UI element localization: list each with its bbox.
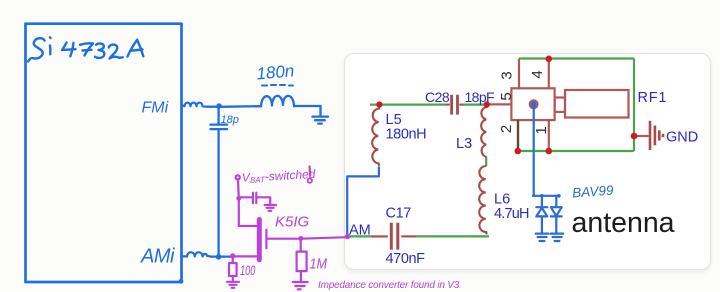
pin 3 lead xyxy=(518,59,520,89)
capacitor decoupling lead xyxy=(239,196,252,198)
wire L3 to L6 segment xyxy=(485,157,487,166)
svg-text:2: 2 xyxy=(498,125,515,133)
wire AM node to converter xyxy=(211,255,233,257)
junction pin1/bottom shield xyxy=(546,148,553,155)
wire 18p down to AM node xyxy=(217,130,219,257)
junction L3/top net xyxy=(484,101,490,107)
junction gate/1M node xyxy=(298,236,303,241)
svg-text:C28: C28 xyxy=(425,89,450,105)
RF1 neck xyxy=(555,98,565,112)
svg-text:180n: 180n xyxy=(256,61,295,83)
RF1 body xyxy=(565,90,629,118)
transistor Q1 gate bar xyxy=(265,230,267,248)
GND lead xyxy=(634,135,649,137)
junction L5/top net xyxy=(376,101,382,107)
svg-text:4: 4 xyxy=(529,70,546,78)
svg-text:3: 3 xyxy=(499,71,516,79)
wire coil to ground xyxy=(294,105,321,107)
pin 4 lead xyxy=(548,59,550,89)
ground (1M) xyxy=(293,282,308,289)
svg-text:GND: GND xyxy=(666,129,698,145)
svg-text:VBAT-switched: VBAT-switched xyxy=(241,167,316,185)
svg-text:K5IG: K5IG xyxy=(275,214,310,231)
wire AM node up to L5 bottom xyxy=(347,167,379,236)
ground (FM side) xyxy=(312,106,328,124)
resistor R 100 lead xyxy=(232,256,234,263)
svg-text:AM: AM xyxy=(349,223,371,239)
ground (D1) xyxy=(536,234,549,241)
wire top net L5 to C28 xyxy=(370,103,446,105)
wire antenna feed from pin5 xyxy=(533,107,535,196)
capacitor 18p lead xyxy=(217,106,219,124)
RF1 main box xyxy=(511,88,554,120)
wire FM node xyxy=(212,105,261,108)
diode D1 lead to ground xyxy=(541,216,543,233)
inductor L6 xyxy=(479,166,487,234)
svg-text:5: 5 xyxy=(498,92,515,100)
svg-text:Impedance converter found in V: Impedance converter found in V3 xyxy=(318,280,460,291)
connector RF1 xyxy=(487,59,649,152)
svg-text:18pF: 18pF xyxy=(465,89,495,105)
junction antenna/pin5 (blue dot) xyxy=(531,101,537,107)
resistor R 1M lead xyxy=(300,239,302,252)
pin 2 lead (dark) xyxy=(517,120,519,150)
pin 5 lead xyxy=(487,103,512,105)
capacitor 18p plates xyxy=(211,125,228,130)
wire RF1 shield bottom xyxy=(518,150,634,152)
transistor Q1 channel bar xyxy=(257,220,262,260)
green wires xyxy=(348,59,634,237)
svg-text:18p: 18p xyxy=(221,114,239,126)
resistor R 1M lead to ground xyxy=(300,271,302,281)
ferrite bead FM (squiggle) xyxy=(185,103,213,107)
svg-text:BAV99: BAV99 xyxy=(572,183,615,201)
schematic card background xyxy=(344,53,711,270)
wire AM to C17 xyxy=(348,235,372,237)
diode D2 cathode bar xyxy=(551,215,562,217)
IC U1 Si4732A box xyxy=(26,24,182,282)
diode D2 lead xyxy=(555,196,557,207)
resistor R 100 lead to ground xyxy=(232,276,234,281)
inductor L 180n (coil) xyxy=(261,96,294,106)
wire VBAT lead xyxy=(237,180,240,199)
exclamation mark xyxy=(308,167,311,176)
wire diode top rail xyxy=(533,195,559,197)
junction D2 top xyxy=(557,194,561,198)
ground (100 ohm) xyxy=(227,282,239,288)
diode D1 cathode bar xyxy=(536,206,547,208)
transistor Q1 drain lead xyxy=(239,199,257,226)
junction AM node (magenta dot) xyxy=(345,234,350,239)
junction pin2/bottom shield xyxy=(515,148,522,155)
ferrite bead AM (squiggle) xyxy=(187,252,211,256)
wire RF1 shield right xyxy=(633,59,635,152)
svg-text:RF1: RF1 xyxy=(638,90,668,106)
svg-text:1: 1 xyxy=(533,126,550,134)
svg-text:AMi: AMi xyxy=(140,246,175,268)
capacitor C17 xyxy=(372,223,417,250)
terminal circle VBAT xyxy=(236,175,240,179)
ground (D2) xyxy=(551,234,564,241)
junction VBAT node xyxy=(236,196,241,201)
wire FMi pin lead xyxy=(182,105,185,107)
ground (decoupling cap) xyxy=(265,205,276,211)
svg-text:4.7uH: 4.7uH xyxy=(494,206,529,222)
capacitor decoupling lead to ground xyxy=(257,197,271,204)
junction source node xyxy=(230,253,235,258)
svg-text:antenna: antenna xyxy=(572,207,675,239)
svg-text:C17: C17 xyxy=(386,206,412,222)
junction pin4/top shield xyxy=(546,56,553,63)
pin 1 lead xyxy=(548,120,550,151)
diode D2 lead to ground xyxy=(555,216,557,233)
junction FM node xyxy=(216,103,221,108)
transistor Q1 gate lead / wire to AM label xyxy=(267,237,347,239)
svg-text:470nF: 470nF xyxy=(386,251,426,267)
svg-text:FMi: FMi xyxy=(142,100,169,117)
resistor R 100 body xyxy=(229,263,237,276)
pin 5 circle xyxy=(530,100,538,108)
diode D2 triangle xyxy=(551,207,562,216)
resistor R 1M body xyxy=(297,252,307,272)
inductor L5 xyxy=(372,105,379,166)
capacitor decoupling plates xyxy=(253,193,256,203)
junction GND/shield right xyxy=(631,133,638,140)
wire C17 to L6 bottom xyxy=(416,235,489,237)
capacitor C28 xyxy=(446,95,463,115)
wire RF1 shield top xyxy=(519,57,634,59)
dashed line above coil xyxy=(262,84,293,87)
svg-text:100: 100 xyxy=(240,264,256,278)
junction AM node xyxy=(216,254,222,260)
wire AMi pin lead xyxy=(182,255,188,257)
diode D1 triangle xyxy=(536,208,547,217)
svg-text:180nH: 180nH xyxy=(386,127,427,143)
svg-text:L3: L3 xyxy=(456,136,472,152)
svg-text:1M: 1M xyxy=(310,254,328,271)
inductor L3 xyxy=(481,105,486,157)
diode D1 lead xyxy=(541,196,543,207)
power ground symbol GND xyxy=(650,121,663,150)
wire AM node to transistor source xyxy=(233,255,257,257)
pen blob box corner xyxy=(179,279,184,284)
junction D1 top xyxy=(540,194,544,198)
label Si4732A xyxy=(28,37,143,61)
wire C28 to L3 node xyxy=(463,103,487,105)
